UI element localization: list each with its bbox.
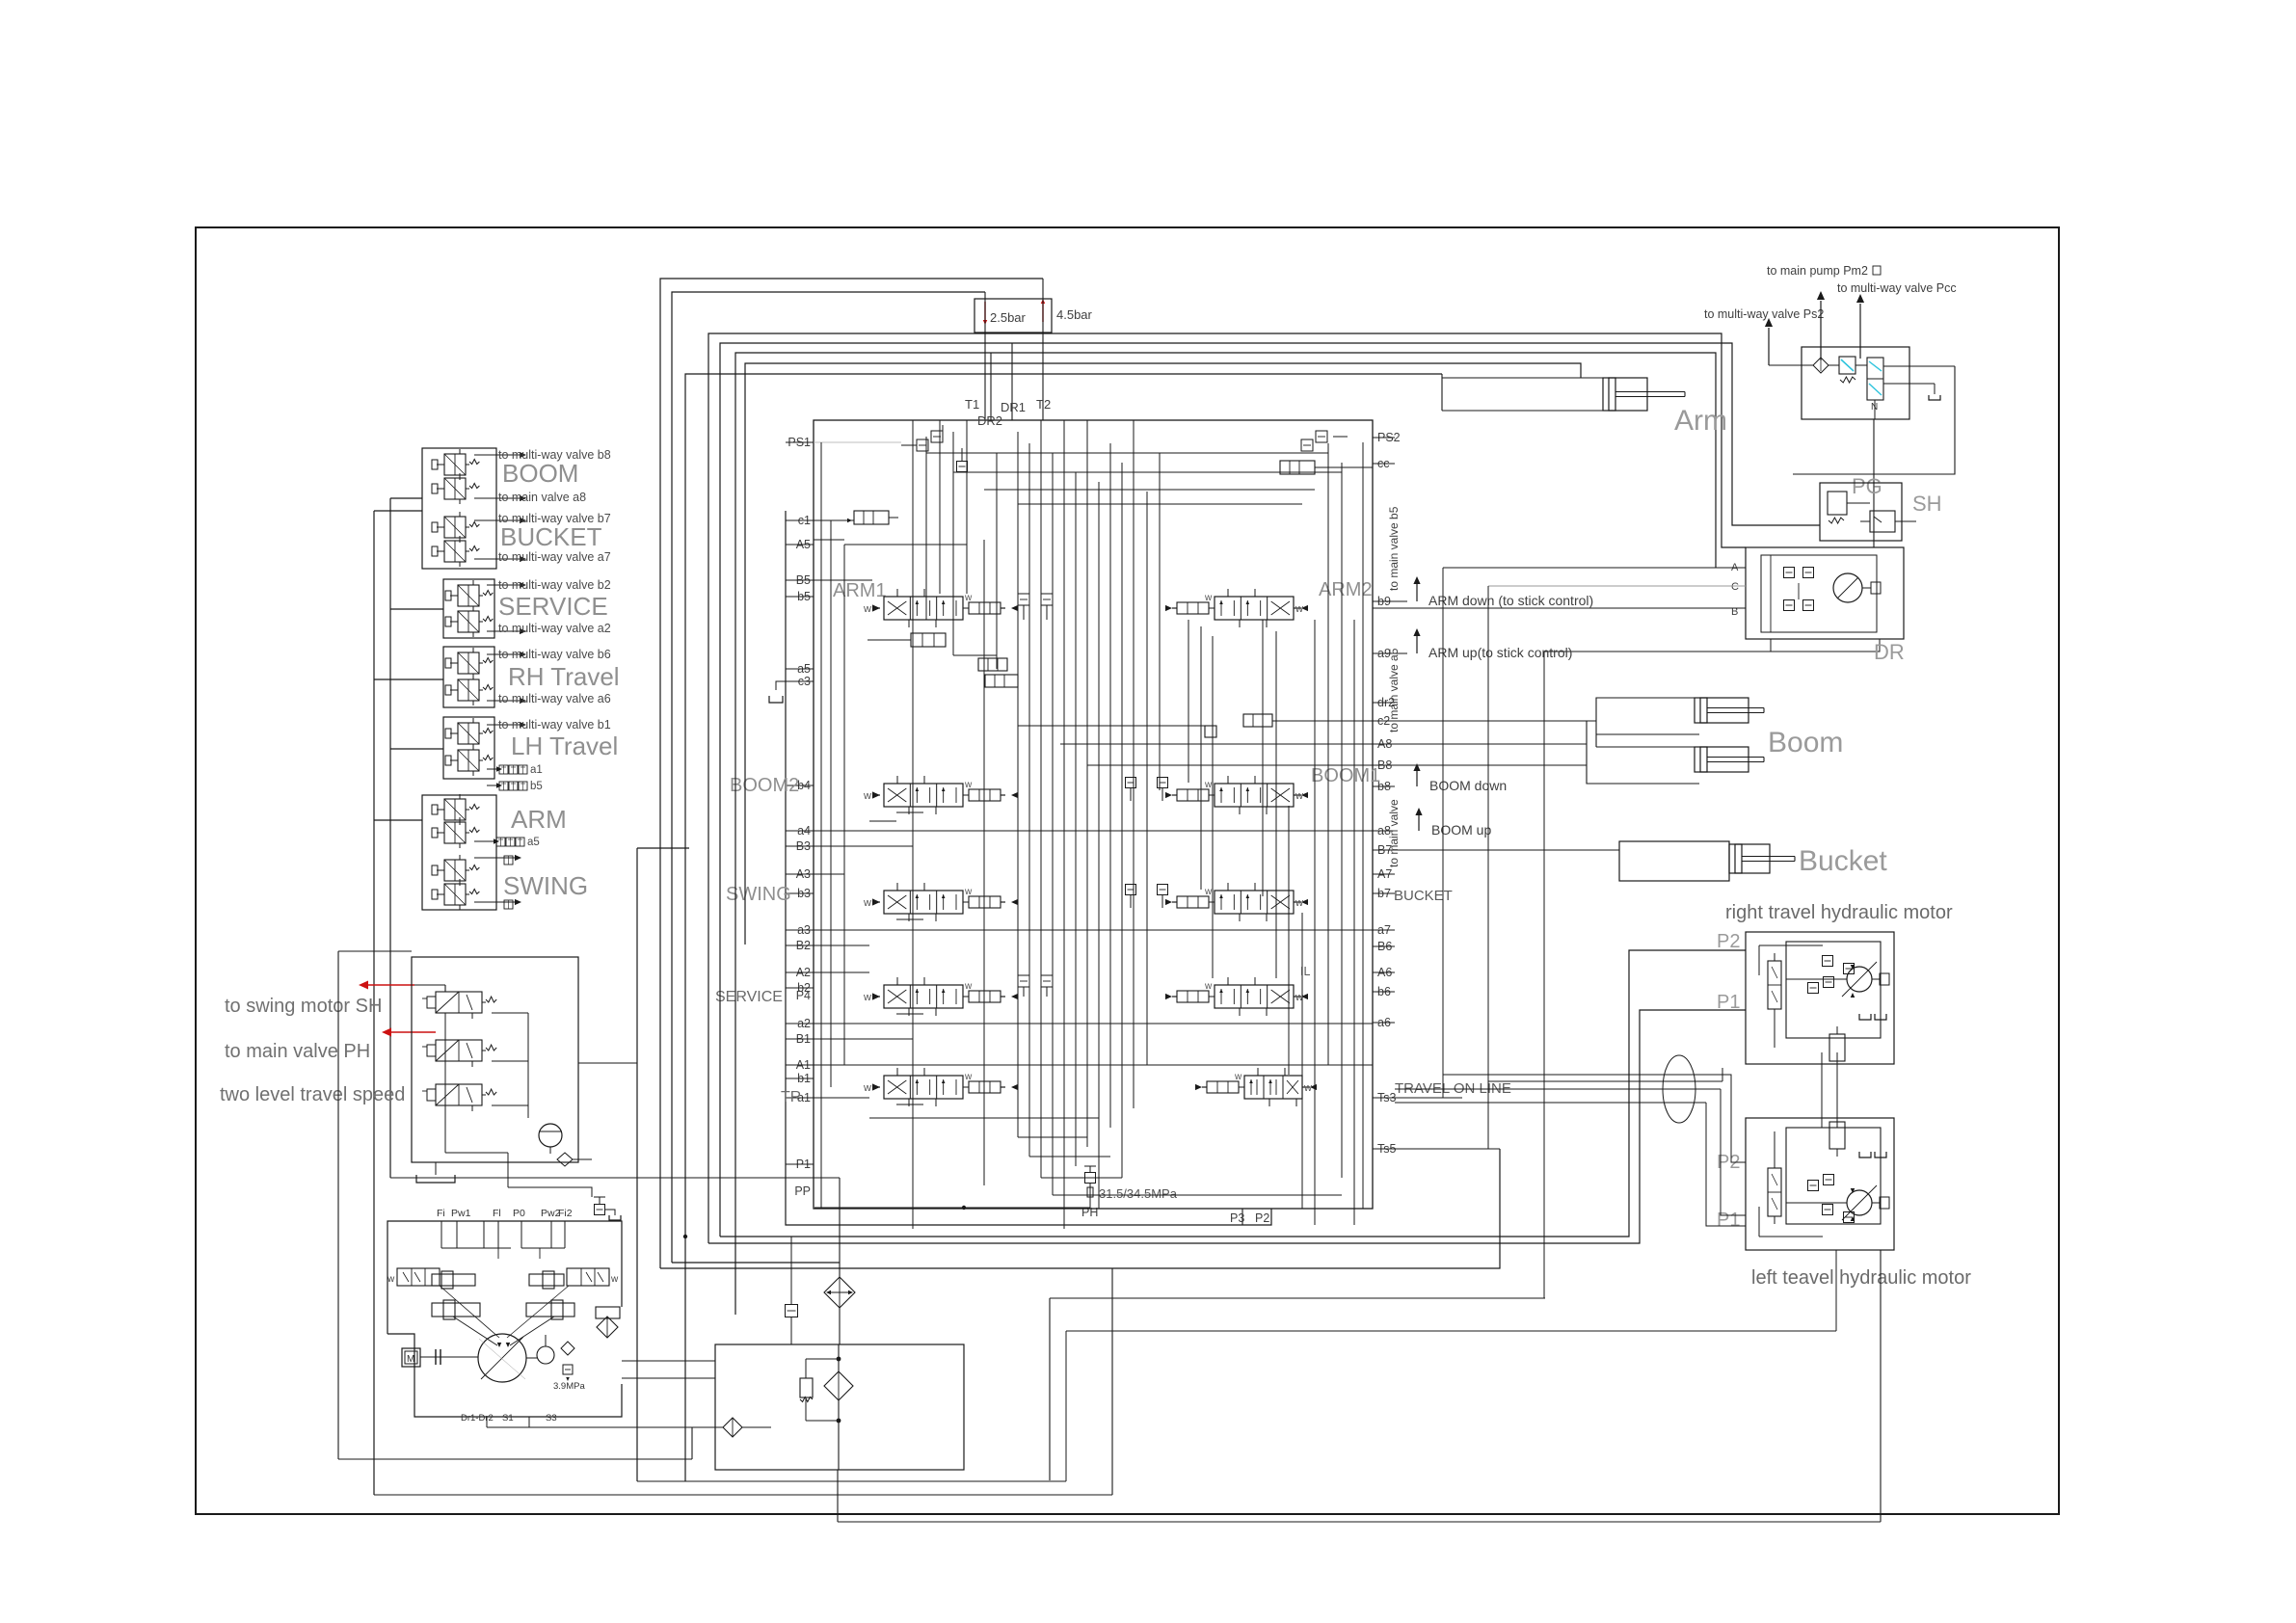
svg-text:P3: P3 <box>1230 1211 1244 1225</box>
servo cylinder left lower <box>432 1303 480 1317</box>
svg-text:w: w <box>863 992 871 1003</box>
solenoid valve SV3 <box>436 1084 482 1105</box>
svg-text:SH: SH <box>1912 492 1942 516</box>
main pump outer box <box>387 1221 622 1334</box>
pump outlet filter <box>596 1307 620 1318</box>
svg-text:2.5bar: 2.5bar <box>990 310 1027 325</box>
svg-text:TR: TR <box>781 1089 801 1105</box>
svg-text:a5: a5 <box>527 837 540 848</box>
svg-text:S3: S3 <box>546 1413 557 1423</box>
left travel motor block <box>1746 1118 1894 1250</box>
svg-text:T2: T2 <box>1036 397 1051 412</box>
relief pair ARM1 row <box>1018 594 1029 605</box>
pilot valve cc <box>1280 461 1315 474</box>
small boxes BUCKET top <box>1126 885 1136 895</box>
main valve boundary 2 <box>786 511 1271 1225</box>
wire pump bottom drains <box>486 1417 488 1427</box>
wire crossing bundle 1 <box>1443 1075 1746 1162</box>
arrow up Ps2 <box>1768 328 1770 365</box>
regulator spool left <box>397 1268 440 1286</box>
svg-text:to multi-way valve b2: to multi-way valve b2 <box>498 578 611 592</box>
pilot gear pump <box>537 1346 554 1364</box>
wire bottom y1316 <box>660 1149 1500 1268</box>
svg-text:Pw1: Pw1 <box>451 1208 471 1219</box>
label to multi-way valve b8 <box>474 454 521 456</box>
wire block bottom taps <box>912 1209 914 1229</box>
svg-text:two level travel speed: two level travel speed <box>220 1084 405 1105</box>
svg-text:w: w <box>863 790 871 802</box>
wire swing C gray <box>1488 585 1746 587</box>
svg-text:SERVICE: SERVICE <box>715 989 783 1005</box>
hose bundle ellipse <box>1663 1055 1695 1123</box>
check diamond pump <box>561 1342 574 1355</box>
riser DR2 <box>990 353 992 420</box>
svg-text:RH Travel: RH Travel <box>508 662 620 691</box>
svg-text:a1: a1 <box>530 764 543 776</box>
swing pilot filter <box>1769 364 1813 366</box>
swing motor drain DR <box>1771 639 1880 652</box>
wire bottom y1537 <box>637 1480 1066 1482</box>
svg-text:w: w <box>1303 1082 1312 1094</box>
wire top loop 6 <box>745 363 1581 945</box>
arm cylinder outline <box>1442 377 1603 379</box>
pilot valve group BOOM/BUCKET <box>422 448 496 569</box>
svg-text:DR1: DR1 <box>1001 400 1026 414</box>
wire top loop 1 <box>660 279 1043 1268</box>
vertical x1497 <box>1442 568 1444 1098</box>
svg-text:to swing motor SH: to swing motor SH <box>225 996 382 1017</box>
wire bottom y1514 <box>338 1458 692 1460</box>
check diamond manifold <box>557 1153 573 1166</box>
wire crossing bundle 2 <box>1488 1080 1722 1082</box>
regulator spool right <box>567 1268 609 1286</box>
servo cylinder right lower <box>526 1303 574 1317</box>
solenoid valve SV1 <box>436 992 482 1013</box>
relief pair SERVICE row <box>1018 975 1029 987</box>
svg-text:to multi-way valve a7: to multi-way valve a7 <box>498 550 611 564</box>
label to main valve a8 <box>474 497 521 499</box>
svg-text:w: w <box>863 1082 871 1094</box>
svg-text:BOOM1: BOOM1 <box>1311 765 1380 786</box>
svg-text:w: w <box>964 780 973 790</box>
wire swing B <box>1373 607 1746 609</box>
port stub lines right <box>1373 437 1395 439</box>
SH relief valve <box>1828 492 1847 515</box>
svg-text:C: C <box>1731 581 1739 593</box>
pilot valve group LH Travel <box>443 717 494 779</box>
wire to PG <box>1793 366 1955 474</box>
c3 tank drop <box>776 681 814 690</box>
svg-text:P2: P2 <box>1255 1211 1269 1225</box>
wire top loop 2 <box>672 292 985 1263</box>
gauge box 2.5bar 4.5bar <box>974 299 1052 333</box>
wire bottom bus y1283 <box>720 950 1746 1237</box>
red arrow 4.5bar <box>1042 304 1044 322</box>
svg-text:4.5bar: 4.5bar <box>1056 307 1093 322</box>
svg-text:to multi-way valve b1: to multi-way valve b1 <box>498 718 611 732</box>
svg-text:3.9MPa: 3.9MPa <box>553 1381 585 1392</box>
svg-text:to main pump Pm2: to main pump Pm2 <box>1767 264 1868 278</box>
svg-text:31.5/34.5MPa: 31.5/34.5MPa <box>1099 1186 1178 1201</box>
manifold tank connection <box>435 1162 437 1175</box>
svg-text:Fi2: Fi2 <box>558 1208 573 1219</box>
svg-text:w: w <box>1295 897 1303 909</box>
wire a9 arm up <box>1373 652 1407 654</box>
arrow up Pcc <box>1859 304 1861 359</box>
svg-text:Bucket: Bucket <box>1799 845 1887 877</box>
servo cylinder right upper <box>529 1274 564 1286</box>
wire boom up arrow <box>1415 808 1422 815</box>
manifold right link <box>578 1062 637 1064</box>
small boxes BOOM1 top <box>1126 778 1136 788</box>
wire top loop 5 <box>735 353 1716 1315</box>
main spool BOOM1 <box>1177 789 1209 801</box>
svg-text:BOOM up: BOOM up <box>1431 822 1491 838</box>
wire x1106 up <box>1065 1331 1067 1481</box>
wire case drain y1579 <box>838 1521 1881 1523</box>
svg-text:to main valve a8: to main valve a8 <box>498 491 586 504</box>
svg-text:w: w <box>610 1274 619 1285</box>
wire crossing bundle 4 <box>1395 1102 1706 1104</box>
svg-text:w: w <box>964 981 973 992</box>
pump top relief valve <box>595 1205 605 1215</box>
svg-text:w: w <box>964 593 973 603</box>
suction filter on line <box>723 1418 742 1437</box>
pilot supply bus vertical 1 <box>373 511 375 1495</box>
svg-text:w: w <box>863 897 871 909</box>
manifold internal wires <box>414 984 445 986</box>
vertical x1602 swing drain <box>1543 652 1545 1298</box>
swing pilot 2way valve <box>1867 358 1883 400</box>
svg-text:PP: PP <box>794 1184 811 1198</box>
svg-text:BOOM: BOOM <box>502 459 578 488</box>
swing pilot valve box <box>1802 347 1909 419</box>
svg-text:M: M <box>407 1354 414 1365</box>
wire bucket B7 <box>1373 849 1619 851</box>
cylinder Bucket <box>1729 844 1770 873</box>
pump port stubs <box>441 1221 442 1248</box>
aux valve mid a5 <box>978 658 1007 671</box>
svg-text:BOOM down: BOOM down <box>1429 778 1507 793</box>
red arrow 2.5bar <box>984 302 986 320</box>
pilot supply stubs <box>374 510 422 512</box>
svg-text:BUCKET: BUCKET <box>1394 888 1453 904</box>
svg-text:S1: S1 <box>502 1413 514 1423</box>
wire bottom bus y1290 <box>708 1010 1746 1243</box>
svg-text:w: w <box>1204 780 1213 790</box>
wire b9 arm down <box>1373 600 1407 602</box>
return relief <box>786 1305 798 1317</box>
tank internal check valve <box>800 1378 813 1397</box>
svg-text:to multi-way valve Ps2: to multi-way valve Ps2 <box>1704 307 1824 321</box>
label to multi-way valve b7 <box>474 519 521 521</box>
wire boom A8 <box>1373 743 1587 745</box>
main spool ARM2 <box>1177 602 1209 614</box>
main block internal verticals <box>820 442 822 1209</box>
pilot supply bus vertical 2 <box>389 498 391 1178</box>
svg-text:to main valve b5: to main valve b5 <box>1387 506 1401 591</box>
boom cylinder outline <box>1596 698 1748 734</box>
red arrow to swing motor <box>366 984 414 986</box>
svg-text:ARM: ARM <box>511 805 567 834</box>
svg-text:ARM up(to stick control): ARM up(to stick control) <box>1428 645 1572 660</box>
vertical x1544 <box>1487 586 1489 1149</box>
main spool IL <box>1177 991 1209 1002</box>
svg-text:left teavel hydraulic motor: left teavel hydraulic motor <box>1751 1267 1971 1289</box>
cylinder Arm <box>1603 378 1647 411</box>
svg-text:to multi-way valve b6: to multi-way valve b6 <box>498 648 611 661</box>
P3 P2 stub verticals <box>1241 1209 1243 1225</box>
svg-text:Boom: Boom <box>1768 727 1843 758</box>
pilot relief PS2 <box>1301 439 1313 451</box>
svg-text:w: w <box>964 1072 973 1082</box>
pilot valve group ARM/SWING <box>422 795 496 910</box>
wire boom down arrow <box>1413 763 1420 771</box>
svg-text:right travel hydraulic moto: right travel hydraulic motor <box>1725 902 1953 923</box>
svg-text:P4: P4 <box>796 989 811 1002</box>
tank box <box>715 1344 964 1470</box>
wire manifold down <box>507 1153 509 1187</box>
svg-text:BUCKET: BUCKET <box>500 522 602 551</box>
wire manifold to tank <box>390 1177 840 1179</box>
svg-text:w: w <box>1295 603 1303 615</box>
port stub lines left <box>786 441 814 443</box>
pilot valve group RH Travel <box>443 647 494 707</box>
aux valve ARM1 below <box>911 633 946 647</box>
svg-text:to multi-way valve a2: to multi-way valve a2 <box>498 622 611 635</box>
svg-text:w: w <box>863 603 871 615</box>
border frame <box>196 227 2059 1514</box>
cylinder Boom upper <box>1695 698 1749 723</box>
wire swing A <box>1443 567 1746 569</box>
riser DR1 <box>1011 343 1013 420</box>
svg-text:to main valve: to main valve <box>1387 799 1401 867</box>
svg-text:SWING: SWING <box>503 871 588 900</box>
wire bottom y1381 <box>1066 1330 1836 1332</box>
svg-text:b5: b5 <box>530 781 543 792</box>
pilot relief PS1 <box>917 439 928 451</box>
electric motor M <box>402 1348 420 1367</box>
servo cylinder left upper <box>432 1274 475 1286</box>
svg-text:to multi-way valve Pcc: to multi-way valve Pcc <box>1837 281 1957 295</box>
svg-text:ARM1: ARM1 <box>833 580 887 601</box>
svg-text:Arm: Arm <box>1674 405 1727 437</box>
port stub line P1 <box>786 1163 814 1165</box>
solenoid manifold box <box>412 957 578 1162</box>
wire top loop 3 <box>708 333 1746 1243</box>
label to multi-way valve a7 <box>474 558 521 560</box>
main valve outer box <box>814 420 1373 1209</box>
swing motor box <box>1746 547 1904 639</box>
check A5 <box>957 462 968 472</box>
wire boom c2 <box>1373 720 1596 722</box>
main block internal horizontals <box>926 452 1328 454</box>
svg-text:w: w <box>1234 1072 1242 1082</box>
svg-text:to main valve a5: to main valve a5 <box>1387 648 1401 732</box>
svg-text:w: w <box>1204 981 1213 992</box>
wire top loop 7 <box>685 374 1442 1481</box>
svg-text:Dr1-Dr2: Dr1-Dr2 <box>461 1413 494 1423</box>
cylinder Boom lower <box>1695 747 1749 772</box>
breather filter above tank <box>839 1308 841 1344</box>
svg-text:SERVICE: SERVICE <box>498 592 608 621</box>
wire crossing bundle 3 <box>1395 1088 1721 1090</box>
wire Ts5 to right <box>1373 1148 1500 1150</box>
pilot valve group SERVICE <box>443 579 494 638</box>
svg-text:T1: T1 <box>965 397 979 412</box>
svg-text:BOOM2: BOOM2 <box>730 775 799 796</box>
swing pilot box wiring <box>1883 365 1955 367</box>
svg-text:to main valve PH: to main valve PH <box>225 1041 370 1062</box>
check c2 <box>1243 714 1272 727</box>
solenoid valve SV2 <box>436 1040 482 1061</box>
wire boom B8 <box>1373 764 1587 766</box>
right travel motor block <box>1746 932 1894 1064</box>
accumulator <box>539 1124 562 1147</box>
svg-text:P2: P2 <box>1717 931 1740 952</box>
svg-text:DR2: DR2 <box>977 413 1002 428</box>
gauge risers <box>984 292 986 420</box>
vertical x351 <box>337 951 339 1459</box>
swash linkage <box>453 1317 497 1345</box>
arrow up Pm2 <box>1820 301 1822 360</box>
wire vertical x661 <box>636 848 638 1481</box>
pilot relief 3.9MPa <box>563 1365 573 1374</box>
svg-text:DR: DR <box>1874 640 1905 664</box>
wire top loop 4 <box>720 343 1820 1237</box>
svg-text:w: w <box>387 1274 395 1285</box>
wire bottom y1347 <box>1050 1297 1545 1299</box>
PH relief <box>1085 1173 1096 1184</box>
wire pump to tank <box>622 1360 715 1362</box>
svg-text:w: w <box>1204 593 1213 603</box>
main pump circle <box>478 1334 526 1382</box>
svg-text:w: w <box>1204 887 1213 897</box>
main spool BUCKET <box>1177 896 1209 908</box>
red arrow to main valve PH <box>389 1031 436 1033</box>
main spool TRAVEL <box>1207 1081 1239 1093</box>
wire bottom y1551 <box>374 1494 1112 1496</box>
svg-text:ARM2: ARM2 <box>1319 579 1373 600</box>
svg-text:ARM down (to stick control: ARM down (to stick control) <box>1428 593 1593 608</box>
wire Ts3 to right <box>1373 1097 1462 1099</box>
tank junction dots <box>837 1357 841 1362</box>
svg-text:P0: P0 <box>513 1208 525 1219</box>
check c3 <box>985 675 1018 687</box>
svg-text:w: w <box>964 887 973 897</box>
swing pilot relief <box>1829 364 1839 366</box>
svg-text:w: w <box>1295 790 1303 802</box>
tank internal filter <box>824 1371 853 1400</box>
SH valve box <box>1820 483 1902 541</box>
svg-text:LH Travel: LH Travel <box>511 732 618 760</box>
bucket cylinder outline <box>1619 841 1729 881</box>
svg-text:Fl: Fl <box>493 1208 501 1219</box>
svg-text:to multi-way valve a6: to multi-way valve a6 <box>498 692 611 705</box>
svg-text:Fi: Fi <box>437 1208 445 1219</box>
SH switch valve <box>1870 511 1895 532</box>
PS1 gray line <box>814 441 901 443</box>
svg-text:PG: PG <box>1852 474 1882 498</box>
swing motor inner <box>1761 555 1877 632</box>
wire bottom y1310 breather <box>672 1262 840 1264</box>
pilot valve c1 <box>854 511 889 524</box>
shuttle link verticals <box>1821 1052 1823 1128</box>
